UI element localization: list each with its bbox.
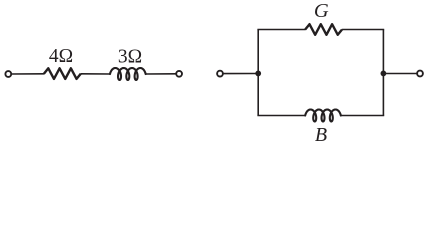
terminal T3 (right circuit, left port) — [217, 71, 223, 77]
inductor L1 (3 ohm) — [110, 68, 146, 80]
wire top-right segment — [342, 29, 384, 31]
wire R1 to inductor L1 — [81, 73, 111, 75]
node B (junction dot, right) — [381, 71, 387, 77]
wire right vertical side — [382, 30, 384, 116]
wire T3 to node A — [224, 73, 259, 75]
wire L1 to terminal T2 — [146, 73, 176, 75]
resistor R1 (4 ohm) — [44, 68, 81, 79]
wire left vertical side — [257, 30, 259, 116]
wire bottom-right segment — [341, 115, 384, 117]
wire node B to terminal T4 — [383, 73, 416, 75]
wire top-left segment — [257, 29, 305, 31]
svg-text:B: B — [315, 124, 327, 144]
terminal T4 (right circuit, right port) — [417, 71, 423, 77]
terminal T1 (left circuit, left port) — [5, 71, 11, 77]
svg-text:G: G — [314, 0, 329, 22]
svg-text:3Ω: 3Ω — [118, 46, 142, 67]
inductor B (bottom branch) — [305, 110, 341, 122]
node A (junction dot, left) — [255, 71, 261, 77]
resistor G (top branch) — [305, 24, 342, 35]
wire bottom-left segment — [257, 115, 305, 117]
svg-text:4Ω: 4Ω — [49, 46, 73, 67]
terminal T2 (left circuit, right port) — [176, 71, 182, 77]
wire T1 to resistor R1 — [12, 73, 45, 75]
